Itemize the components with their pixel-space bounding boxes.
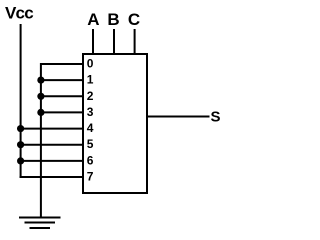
junction dot input 1 [37, 77, 44, 84]
svg-text:C: C [128, 10, 140, 29]
junction dot input 5 [17, 141, 24, 148]
wire input 1 [40, 79, 82, 81]
wire input 3 [40, 111, 82, 113]
svg-text:3: 3 [87, 105, 94, 119]
svg-text:5: 5 [87, 137, 94, 151]
svg-text:7: 7 [87, 170, 94, 184]
wire input 4 [20, 128, 82, 130]
ground rail wire [40, 63, 42, 218]
wire input 0 [40, 63, 82, 65]
Vcc rail wire [20, 24, 22, 178]
svg-text:4: 4 [87, 121, 94, 135]
svg-text:Vcc: Vcc [5, 4, 33, 23]
ground [19, 218, 61, 229]
junction dot input 2 [37, 93, 44, 100]
svg-text:S: S [210, 109, 220, 126]
output S wire [147, 116, 210, 118]
svg-text:6: 6 [87, 153, 94, 167]
svg-text:0: 0 [87, 57, 94, 71]
junction dot input 6 [17, 157, 24, 164]
wire input 7 [20, 176, 82, 178]
svg-text:B: B [107, 10, 119, 29]
junction dot input 4 [17, 125, 24, 132]
select line B wire [113, 29, 115, 53]
svg-text:1: 1 [87, 73, 94, 87]
select line A wire [92, 29, 94, 53]
junction dot input 3 [37, 109, 44, 116]
wire input 2 [40, 95, 82, 97]
multiplexer U1 box [83, 54, 147, 193]
select line C wire [134, 29, 136, 53]
wire input 5 [20, 144, 82, 146]
wire input 6 [20, 160, 82, 162]
svg-text:A: A [87, 10, 99, 29]
svg-text:2: 2 [87, 89, 94, 103]
